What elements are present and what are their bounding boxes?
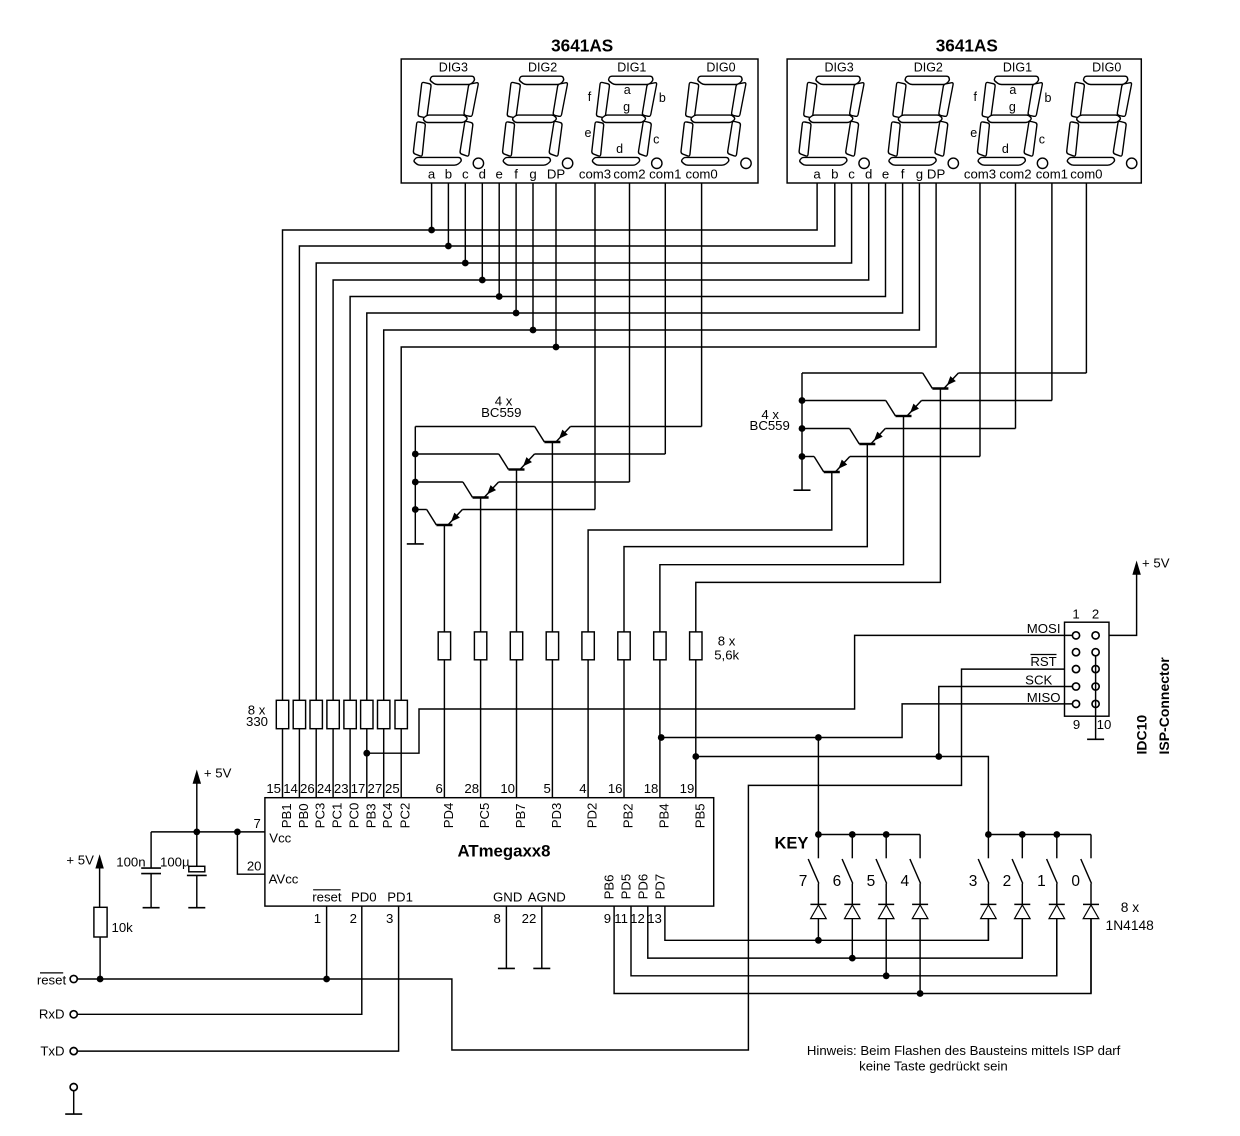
svg-text:26: 26 [300, 781, 315, 796]
wire segment-d bus (display2 pin down, across, down left rail) [333, 183, 869, 700]
switch key 1 [1056, 835, 1058, 859]
svg-text:22: 22 [522, 911, 537, 926]
wire Q2 emitter to com1 [535, 453, 666, 455]
svg-text:com2: com2 [999, 167, 1031, 182]
resistor 330 #6 [361, 700, 373, 728]
wire display1 g pin stub [532, 183, 534, 330]
junction Vcc/100u [193, 829, 200, 836]
terminal GND bottom-left [70, 1084, 77, 1091]
wire TxD to PD1 [77, 906, 398, 1051]
svg-text:2: 2 [1003, 873, 1012, 890]
svg-text:8: 8 [494, 911, 501, 926]
junction key rail group1 [815, 831, 822, 838]
ground C1 [143, 907, 160, 909]
wire segment-DP bus (display2 pin down, across, down left rail) [401, 183, 936, 700]
svg-text:e: e [882, 167, 889, 182]
terminal TxD [70, 1048, 77, 1055]
wire terminal to ground [73, 1091, 75, 1114]
digit DIG1 of module 1 [588, 76, 659, 165]
svg-text:c: c [848, 167, 855, 182]
junction key7 column on PB4 row [815, 734, 822, 741]
svg-text:DIG0: DIG0 [1092, 60, 1121, 74]
transistor Q4 BC559 [427, 510, 463, 526]
junction display1 d on bus [479, 277, 486, 284]
svg-text:10k: 10k [112, 920, 134, 935]
svg-text:DIG1: DIG1 [617, 60, 646, 74]
svg-text:1: 1 [314, 911, 321, 926]
wire SCK tap up to ISP pin7 [939, 687, 1073, 757]
svg-text:DP: DP [547, 167, 566, 182]
ground AGND pin [533, 967, 550, 969]
junction collector rail [412, 479, 419, 486]
ISP pin 2 circle [1092, 632, 1099, 639]
digit DIG3 of module 1 [410, 76, 481, 165]
transistor Q5 BC559 [923, 373, 959, 389]
wire Q8 emitter to display2 com0 [850, 456, 980, 458]
junction display1 e on bus [496, 293, 503, 300]
wire Q5 collector to rail [802, 372, 923, 374]
IC U1 ATmegaxx8 body [265, 798, 714, 906]
switch key 0 [1090, 835, 1092, 859]
junction key rail group1 [849, 831, 856, 838]
svg-text:com0: com0 [1070, 167, 1102, 182]
wire Q5 emitter to display2 com3 [958, 372, 1086, 374]
terminal RxD [70, 1011, 77, 1018]
svg-text:MOSI: MOSI [1027, 621, 1061, 636]
svg-text:25: 25 [385, 781, 400, 796]
wire display2 com0 down [979, 183, 981, 457]
svg-text:DIG2: DIG2 [914, 60, 943, 74]
wire display1 c pin stub [464, 183, 466, 263]
svg-text:a: a [624, 83, 631, 97]
svg-text:com1: com1 [1036, 167, 1068, 182]
junction collector rail [412, 451, 419, 458]
junction right collector rail [799, 425, 806, 432]
wire ISP +5V to pin 2 [1099, 573, 1136, 635]
svg-text:+ 5V: + 5V [1142, 555, 1170, 570]
svg-text:g: g [623, 100, 630, 114]
svg-text:d: d [1002, 142, 1009, 156]
svg-text:2: 2 [1092, 607, 1099, 622]
svg-text:g: g [1009, 100, 1016, 114]
resistor 5,6k #5 [582, 632, 594, 660]
wire +5V to 10k [99, 867, 101, 907]
resistor 330 #1 [276, 700, 288, 728]
resistor 5,6k #1 [438, 632, 450, 660]
svg-text:KEY: KEY [775, 834, 809, 852]
transistor Q7 BC559 [850, 429, 886, 445]
svg-text:PB4: PB4 [656, 803, 671, 828]
svg-text:ISP-Connector: ISP-Connector [1156, 657, 1172, 755]
svg-text:d: d [616, 142, 623, 156]
resistor 5,6k #4 [546, 632, 558, 660]
wire Q7 base to resistor [624, 444, 867, 632]
svg-text:10: 10 [1097, 717, 1112, 732]
svg-text:5: 5 [867, 873, 876, 890]
wire segment-g bus (display2 pin down, across, down left rail) [384, 183, 920, 700]
switch key 5 [885, 835, 887, 859]
diode D7 1N4148 wire [1056, 919, 1058, 976]
svg-text:PD7: PD7 [652, 874, 667, 900]
svg-text:DIG3: DIG3 [439, 60, 468, 74]
wire Q4 base down to resistor [443, 525, 445, 632]
svg-text:+ 5V: + 5V [66, 852, 94, 867]
junction right collector rail [799, 397, 806, 404]
svg-text:c: c [653, 132, 659, 146]
connector J1 IDC10 body [1065, 622, 1110, 716]
resistor 5,6k #6 [618, 632, 630, 660]
wire resistor-330 #2 to ATmega [298, 729, 300, 798]
wire key row 4 (PB6) [614, 906, 1091, 993]
switch key 3 [987, 835, 989, 859]
svg-text:f: f [973, 90, 977, 104]
svg-text:com3: com3 [964, 167, 996, 182]
ISP pin 4 circle [1092, 649, 1099, 656]
wire Q8 collector to rail [802, 456, 814, 458]
svg-text:f: f [588, 90, 592, 104]
svg-text:3: 3 [969, 873, 978, 890]
svg-text:17: 17 [351, 781, 366, 796]
wire display1 f pin stub [515, 183, 517, 313]
svg-text:BC559: BC559 [750, 418, 790, 433]
svg-text:c: c [1039, 132, 1045, 146]
terminal reset (overlined label) [70, 975, 77, 982]
svg-text:6: 6 [833, 873, 842, 890]
capacitor C2 100u (polarized) [196, 832, 198, 866]
junction key row 2 [849, 955, 856, 962]
resistor 5,6k #8 [690, 632, 702, 660]
wire reset net [77, 669, 1072, 1050]
wire key7 column to PB4 row [817, 738, 819, 835]
svg-text:28: 28 [464, 781, 479, 796]
svg-text:14: 14 [283, 781, 298, 796]
wire Q3 base down to resistor [480, 498, 482, 632]
svg-text:PB1: PB1 [279, 803, 294, 828]
wire resistor-330 #1 to ATmega [282, 729, 284, 798]
wire segment-b bus (display2 pin down, across, down left rail) [299, 183, 834, 700]
resistor 330 #5 [344, 700, 356, 728]
junction key rail group2 [1019, 831, 1026, 838]
junction SCK tap [935, 753, 942, 760]
wire display1 d pin stub [481, 183, 483, 280]
svg-text:1: 1 [1072, 607, 1079, 622]
wire +5V down to Vcc node [196, 783, 198, 832]
wire Q3 emitter to com2 [499, 481, 630, 483]
ISP pin 7 circle [1072, 683, 1079, 690]
ground GND pin [498, 967, 515, 969]
wire display1 com0 down [594, 183, 596, 510]
svg-text:PD2: PD2 [585, 803, 600, 829]
+5V symbol (reset pullup) [96, 856, 103, 869]
wire display2 com1 down [1015, 183, 1017, 429]
svg-text:PB0: PB0 [296, 803, 311, 828]
svg-text:DIG1: DIG1 [1003, 60, 1032, 74]
junction collector rail [412, 506, 419, 513]
wire display1 a pin stub [431, 183, 433, 230]
svg-text:PD1: PD1 [387, 889, 413, 904]
wire reset to IC pin 1 [326, 906, 328, 979]
wire display2 com3 down [1085, 183, 1087, 373]
ISP pin 8 circle [1092, 683, 1099, 690]
svg-text:e: e [585, 126, 592, 140]
resistor 5,6k #7 [654, 632, 666, 660]
svg-text:PC5: PC5 [477, 803, 492, 829]
svg-text:7: 7 [799, 873, 808, 890]
wire resistor-5,6k #3 to ATmega [516, 660, 518, 798]
switch key 4 [919, 835, 921, 859]
ISP +5V symbol [1133, 562, 1140, 575]
svg-text:c: c [462, 167, 469, 182]
junction display1 g on bus [530, 327, 537, 334]
svg-text:23: 23 [334, 781, 349, 796]
svg-text:DIG2: DIG2 [528, 60, 557, 74]
digit DIG1 of module 2 [974, 76, 1045, 165]
wire display1 e pin stub [498, 183, 500, 297]
svg-text:ATmegaxx8: ATmegaxx8 [458, 841, 551, 860]
wire Q3 collector to rail [415, 481, 463, 483]
svg-text:f: f [514, 167, 518, 182]
junction reset/IC pin1 [323, 976, 330, 983]
svg-text:PB3: PB3 [363, 803, 378, 828]
svg-text:19: 19 [680, 781, 695, 796]
transistor Q3 BC559 [463, 482, 499, 498]
junction display1 a on bus [428, 227, 435, 234]
switch key 6 [851, 835, 853, 859]
wire GND pin 8 [505, 906, 507, 968]
svg-text:8 x: 8 x [1121, 900, 1140, 915]
junction key rail group1 [883, 831, 890, 838]
svg-text:1N4148: 1N4148 [1106, 918, 1155, 933]
svg-text:+ 5V: + 5V [204, 766, 232, 781]
junction display1 f on bus [513, 310, 520, 317]
svg-text:d: d [479, 167, 486, 182]
svg-text:12: 12 [630, 911, 645, 926]
svg-text:com0: com0 [685, 167, 717, 182]
wire ISP odd-row chain (pins 4-10) [1095, 656, 1097, 740]
digit DIG0 of module 1 [677, 76, 748, 165]
svg-text:3641AS: 3641AS [936, 36, 998, 56]
svg-text:27: 27 [368, 781, 383, 796]
wire resistor-330 #3 to ATmega [315, 729, 317, 798]
wire Q6 emitter to display2 com2 [922, 400, 1052, 402]
wire Q4 emitter to com3 [462, 509, 595, 511]
junction display1 DP on bus [553, 344, 560, 351]
svg-text:SCK: SCK [1025, 672, 1052, 687]
digit DIG2 of module 2 [884, 76, 955, 165]
svg-text:100n: 100n [116, 855, 145, 870]
wire AGND pin 22 [541, 906, 543, 968]
resistor 5,6k #3 [510, 632, 522, 660]
svg-text:AVcc: AVcc [269, 871, 299, 886]
junction key rail group2 [985, 831, 992, 838]
svg-text:PC1: PC1 [330, 803, 345, 829]
transistor Q1 BC559 [535, 427, 571, 443]
wire Q7 emitter to display2 com1 [885, 428, 1015, 430]
capacitor C1 100n [150, 832, 152, 868]
diode D2 1N4148 wire [851, 919, 853, 959]
wire resistor-330 #7 to ATmega [383, 729, 385, 798]
ISP pin 9 circle [1072, 700, 1079, 707]
wire RxD to PD0 [77, 906, 362, 1014]
resistor 5,6k #2 [474, 632, 486, 660]
junction MOSI/PB3 [363, 750, 370, 757]
svg-text:PD6: PD6 [635, 874, 650, 900]
wire display1 b pin stub [447, 183, 449, 246]
ISP pin 5 circle [1072, 666, 1079, 673]
ISP pin 3 circle [1072, 649, 1079, 656]
svg-text:4: 4 [579, 781, 586, 796]
wire key row 1 (PD7) [665, 906, 989, 940]
wire segment-e bus (display2 pin down, across, down left rail) [350, 183, 885, 700]
transistor Q2 BC559 [499, 454, 535, 470]
svg-text:PD5: PD5 [619, 874, 634, 900]
wire display1 com1 down [629, 183, 631, 482]
wire key row 2 (PD6) [648, 906, 1023, 958]
svg-text:e: e [970, 126, 977, 140]
svg-text:7: 7 [253, 816, 260, 831]
wire MOSI net (PB3 to ISP pin1) [367, 635, 1073, 753]
svg-text:RST: RST [1030, 654, 1056, 669]
ground C2 [188, 907, 205, 909]
svg-text:PB2: PB2 [621, 803, 636, 828]
svg-text:PC4: PC4 [380, 803, 395, 829]
ground right transistor rail [794, 489, 811, 491]
junction key row 1 [815, 937, 822, 944]
svg-text:6: 6 [436, 781, 443, 796]
diode D5 1N4148 wire [987, 919, 989, 941]
svg-text:IDC10: IDC10 [1134, 715, 1150, 755]
wire Q1 base down to resistor [551, 442, 553, 632]
diode D4 1N4148 wire [919, 919, 921, 994]
svg-text:5: 5 [544, 781, 551, 796]
svg-text:18: 18 [644, 781, 659, 796]
svg-text:MISO: MISO [1027, 690, 1061, 705]
resistor 330 #4 [327, 700, 339, 728]
wire 10k to reset net [99, 937, 101, 979]
ISP pin 1 circle [1072, 632, 1079, 639]
wire resistor-330 #5 to ATmega [349, 729, 351, 798]
junction Vcc/AVcc [234, 829, 241, 836]
svg-text:Hinweis: Beim Flashen des Baus: Hinweis: Beim Flashen des Bausteins mitt… [807, 1043, 1121, 1058]
wire Q6 base to resistor [660, 416, 904, 632]
svg-text:f: f [901, 167, 905, 182]
svg-text:RxD: RxD [39, 1007, 65, 1022]
wire AVcc branch [237, 832, 265, 874]
digit DIG0 of module 2 [1063, 76, 1134, 165]
wire resistor-5,6k #2 to ATmega [480, 660, 482, 798]
svg-text:1: 1 [1037, 873, 1046, 890]
wire key rail group 2 [988, 834, 1091, 836]
wire resistor-5,6k #7 to ATmega [659, 660, 661, 798]
resistor 330 #2 [293, 700, 305, 728]
wire resistor-5,6k #5 to ATmega [587, 660, 589, 798]
diode D6 1N4148 wire [1021, 919, 1023, 959]
svg-text:Vcc: Vcc [269, 831, 291, 846]
wire segment-c bus (display2 pin down, across, down left rail) [316, 183, 851, 700]
wire resistor-330 #6 to ATmega [366, 729, 368, 798]
junction key rail group2 [1053, 831, 1060, 838]
svg-text:4: 4 [900, 873, 909, 890]
display module U3 body [787, 59, 1141, 183]
ISP pin 10 circle [1092, 700, 1099, 707]
wire resistor-5,6k #4 to ATmega [551, 660, 553, 798]
svg-text:d: d [865, 167, 872, 182]
wire display2 com2 down [1051, 183, 1053, 401]
resistor 330 #3 [310, 700, 322, 728]
wire SCK/PB5 row to key group 2 [696, 757, 989, 835]
wire right collector rail [801, 373, 803, 490]
junction key row 3 [883, 972, 890, 979]
svg-text:3: 3 [386, 911, 393, 926]
svg-text:8 x: 8 x [718, 634, 736, 649]
junction display1 b on bus [445, 243, 452, 250]
svg-text:keine Taste gedrückt sein: keine Taste gedrückt sein [859, 1059, 1008, 1074]
diode D1 1N4148 wire [817, 919, 819, 941]
svg-text:TxD: TxD [40, 1044, 64, 1059]
svg-text:a: a [1009, 83, 1016, 97]
svg-text:GND: GND [493, 889, 522, 904]
svg-text:9: 9 [1073, 717, 1080, 732]
wire display1 com3 down [701, 183, 703, 427]
svg-text:3641AS: 3641AS [551, 36, 613, 56]
wire segment-f bus (display2 pin down, across, down left rail) [367, 183, 903, 700]
svg-text:reset: reset [312, 889, 342, 904]
resistor 330 #7 [378, 700, 390, 728]
svg-text:PD3: PD3 [549, 803, 564, 829]
svg-text:com3: com3 [579, 167, 611, 182]
svg-text:g: g [529, 167, 536, 182]
svg-text:com2: com2 [613, 167, 645, 182]
wire Q6 collector to rail [802, 400, 886, 402]
junction display1 c on bus [462, 260, 469, 267]
wire Q8 base to resistor [588, 472, 832, 632]
svg-text:b: b [831, 167, 838, 182]
wire display1 com2 down [664, 183, 666, 454]
transistor Q8 BC559 [814, 457, 850, 473]
svg-text:5,6k: 5,6k [714, 648, 739, 663]
wire Q7 collector to rail [802, 428, 850, 430]
svg-text:b: b [445, 167, 452, 182]
wire resistor-5,6k #8 to ATmega [695, 660, 697, 798]
wire Q2 collector to rail [415, 453, 499, 455]
svg-text:e: e [496, 167, 503, 182]
wire Q2 base down to resistor [516, 470, 518, 632]
wire Vcc rail to IC [151, 831, 265, 833]
svg-text:PB6: PB6 [602, 874, 617, 899]
svg-text:g: g [916, 167, 923, 182]
resistor R9 10k [94, 907, 107, 937]
+5V symbol (Vcc rail) [193, 771, 200, 784]
diode D3 1N4148 wire [885, 919, 887, 976]
digit DIG2 of module 1 [499, 76, 570, 165]
display module U2 body [401, 59, 758, 183]
svg-text:PB7: PB7 [513, 803, 528, 828]
svg-text:PD4: PD4 [441, 803, 456, 829]
svg-text:a: a [813, 167, 821, 182]
wire segment-a bus (display2 pin down, across, down left rail) [283, 183, 818, 700]
wire Q4 collector to rail [415, 509, 426, 511]
switch key 2 [1021, 835, 1023, 859]
svg-text:b: b [659, 91, 666, 105]
transistor Q6 BC559 [886, 401, 922, 417]
svg-text:PC2: PC2 [398, 803, 413, 829]
wire key rail group 1 [818, 834, 920, 836]
wire Q1 emitter to com [570, 426, 701, 428]
svg-text:a: a [428, 167, 436, 182]
resistor 330 #8 [395, 700, 407, 728]
svg-text:24: 24 [317, 781, 332, 796]
svg-text:com1: com1 [649, 167, 681, 182]
